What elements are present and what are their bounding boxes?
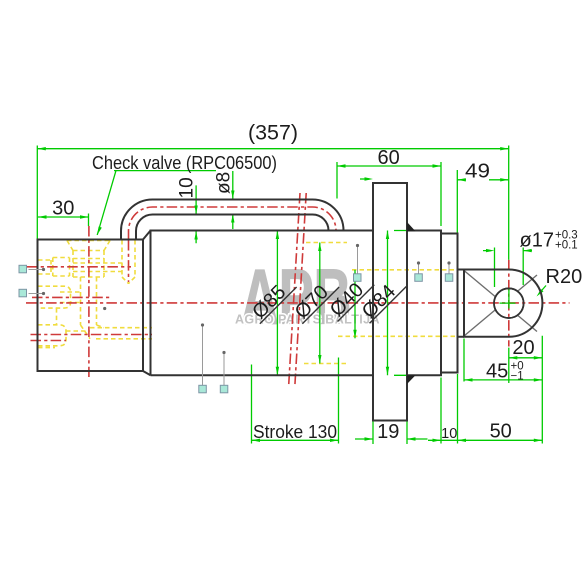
label Ø40 rotated	[324, 271, 376, 323]
flange plate outline	[373, 183, 407, 421]
dimension Ø8 (pipe) rotated	[214, 171, 235, 229]
dimension 45 with tolerance	[464, 339, 542, 383]
pipe inner wall	[136, 215, 329, 240]
check valve hidden detail: top plug	[67, 241, 110, 278]
dimension 10 (collar)	[428, 374, 542, 444]
svg-text:Stroke 130: Stroke 130	[253, 422, 337, 442]
dimension 19	[355, 421, 428, 444]
label Ø85 rotated	[246, 273, 298, 325]
svg-text:30: 30	[52, 198, 74, 220]
svg-text:ø8: ø8	[214, 172, 235, 194]
collar outline	[441, 234, 458, 373]
pipe outer wall	[121, 199, 344, 239]
stray node dot	[103, 307, 106, 310]
hidden rod line bottom (Ø40)	[338, 335, 457, 337]
grip marker bottom 1	[199, 323, 207, 392]
svg-text:19: 19	[377, 421, 399, 443]
weld triangle top	[407, 222, 416, 231]
centerline: pipe bore vertical	[128, 240, 130, 282]
hidden bore line bottom (Ø70)	[304, 363, 347, 365]
svg-text:−1: −1	[511, 371, 524, 383]
svg-text:R20: R20	[546, 266, 583, 288]
svg-text:49: 49	[465, 160, 490, 182]
dimension Ø70 line	[318, 243, 321, 364]
grip marker mid 1	[354, 244, 362, 281]
clevis eye circle stroke	[494, 288, 524, 318]
check valve hidden detail: bottom passage	[90, 328, 152, 339]
clevis eye hole Ø17	[494, 288, 524, 318]
clevis X cross braces	[464, 271, 537, 337]
dimension 20	[509, 336, 543, 444]
cylinder barrel outline	[151, 231, 374, 376]
check valve hidden detail: left port 1	[38, 258, 70, 277]
check valve hidden detail: central channel	[81, 277, 105, 339]
dimension (357)	[37, 121, 508, 260]
rod stub lines	[458, 270, 465, 337]
svg-text:(357): (357)	[248, 121, 298, 145]
dimension 60	[337, 147, 441, 226]
section line 1	[289, 193, 300, 385]
dimension 30	[38, 198, 89, 226]
flange tick arrow	[360, 177, 373, 180]
label Ø84 rotated	[356, 273, 408, 325]
label Ø70 rotated	[289, 273, 341, 325]
dimension 50	[490, 421, 543, 443]
check valve hidden detail: cross drilling to pipe	[73, 240, 135, 284]
check valve block outline	[38, 240, 144, 372]
svg-text:10: 10	[177, 177, 198, 198]
grip marker bottom 2	[220, 351, 228, 393]
centerline: port 1 axis	[27, 266, 131, 268]
hidden rod line top (Ø40)	[352, 269, 457, 271]
check valve leader and label	[92, 153, 277, 235]
radius R20 leader	[537, 266, 583, 297]
grip marker left 2	[19, 289, 45, 297]
grip marker mid 3	[445, 261, 453, 281]
svg-text:10: 10	[441, 426, 457, 442]
check valve hidden detail: left port 3	[38, 308, 90, 348]
centerline: pipe path	[129, 207, 337, 240]
dimension 10 (pipe) rotated	[177, 177, 198, 243]
centerline: clevis eye vertical	[508, 260, 510, 347]
dimension Ø17 with tolerance	[483, 230, 578, 288]
centerline: port 3 axis	[31, 334, 153, 336]
centerline: port 3 lower axis	[31, 340, 67, 342]
watermark APB logo	[235, 254, 380, 341]
dimension Stroke 130	[252, 358, 339, 444]
dimension Ø85 line	[276, 231, 279, 376]
clevis outline	[464, 270, 542, 337]
svg-text:50: 50	[490, 421, 512, 443]
svg-text:20: 20	[512, 337, 534, 359]
chamfer joint lines	[143, 231, 151, 376]
centerline: port 2 axis	[32, 296, 112, 298]
dimension 49	[457, 160, 508, 233]
svg-text:ø17: ø17	[520, 230, 554, 252]
centerline: check valve vertical	[88, 226, 90, 377]
svg-text:+0.1: +0.1	[555, 240, 578, 252]
centerline: main axis	[26, 302, 570, 304]
dimension Ø84 line	[386, 231, 407, 376]
svg-text:45: 45	[486, 361, 508, 383]
dimension Ø40 line	[353, 270, 356, 339]
section line 2	[295, 193, 306, 385]
eye center cross marks	[500, 288, 516, 309]
hidden bore line top (Ø70)	[306, 242, 347, 244]
svg-text:Check valve (RPC06500): Check valve (RPC06500)	[92, 153, 277, 173]
check valve hidden detail: left port 2	[38, 286, 81, 308]
grip marker mid 2	[415, 261, 423, 281]
svg-text:60: 60	[377, 147, 399, 169]
weld triangle bottom	[407, 375, 416, 384]
grip marker left 1	[19, 265, 45, 273]
head block outline	[407, 231, 441, 376]
